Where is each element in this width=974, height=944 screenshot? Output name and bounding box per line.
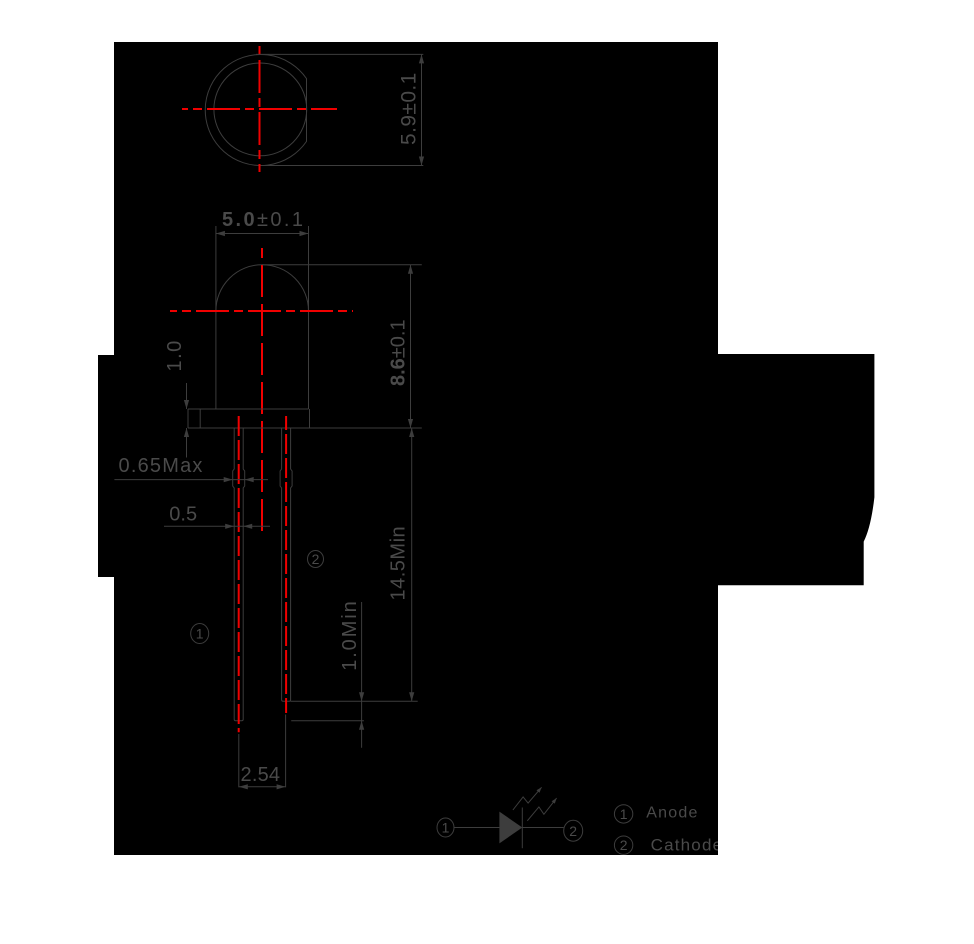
schematic diode triangle [499,812,522,844]
schematic cathode wire [522,827,563,829]
svg-text:2.54: 2.54 [241,764,281,786]
cathode lead centerline [285,416,287,713]
top view horizontal centerline [182,108,337,110]
dim 0.65 left arrow [224,477,233,482]
svg-text:Cathode: Cathode [651,836,724,855]
anode lead outline [233,428,245,721]
dim 2.54 dimension line [239,786,286,788]
dim 5.9 top arrow [419,54,424,63]
dim 1.0Min dimension line [361,602,363,748]
dim 14.5Min dimension line [411,428,413,701]
dim 0.5 left arrow [225,524,234,529]
dim 2.54 left extension line [238,734,240,787]
dim 0.5 dimension line [164,525,270,527]
side view horizontal centerline [170,310,353,312]
dim 1.0 upper arrow [184,400,189,409]
flange right edge [309,409,311,428]
svg-text:1.0Min: 1.0Min [339,599,361,670]
dim 2.54 left arrow [239,784,248,789]
svg-text:0.5: 0.5 [169,503,197,525]
svg-text:2: 2 [569,823,577,839]
anode tip level extension line [291,720,364,722]
dim 14.5Min bottom arrow [409,692,414,701]
dim 2.54 right arrow [277,784,286,789]
dim 0.65 right arrow [245,477,254,482]
dim 1.0 upper line [186,383,188,409]
flange inner vertical [199,409,201,428]
pin 1 callout [191,624,209,644]
legend pin2 circle [614,836,632,854]
svg-text:1.0: 1.0 [164,339,186,371]
schematic cathode bar [521,808,523,849]
flange top line [188,408,309,410]
dim 8.6 dimension line [410,265,412,428]
dim 8.6 top arrow [408,265,413,274]
dim 14.5Min top arrow [409,428,414,437]
light arrow 2 [527,798,556,821]
pin 2 callout [308,551,324,568]
dim 5.0 left arrow [216,231,225,236]
light arrow 1 [513,787,542,810]
schematic pin2 circle [564,820,583,841]
svg-text:2: 2 [620,837,628,853]
side view vertical centerline [261,248,263,533]
dim 5.0 dimension line [216,233,309,235]
svg-text:2: 2 [312,551,320,567]
dim 0.65 dimension line [114,479,268,481]
svg-text:Anode: Anode [646,805,698,822]
top view outer flange circle with flat [205,54,306,165]
dim 1.0 lower arrow [184,428,189,437]
body left side / extension [215,226,217,409]
dim 8.6 bottom arrow [408,419,413,428]
svg-text:1: 1 [620,806,628,822]
svg-text:5.0±0.1: 5.0±0.1 [222,209,305,231]
dim 5.0 right arrow [300,231,309,236]
top view vertical centerline [259,42,261,172]
legend pin1 circle [614,805,632,823]
top view inner circle [214,63,307,156]
cathode tip extension line [291,700,418,702]
svg-text:0.65Max: 0.65Max [119,455,204,477]
dim 8.6 top extension line [262,264,422,266]
dim 1.0Min upper arrow [359,692,364,701]
dim 1.0Min lower arrow [359,721,364,730]
schematic pin1 circle [437,818,454,837]
svg-text:14.5Min: 14.5Min [388,526,410,601]
dim 1.0 lower line [186,428,188,458]
body right side / extension [308,226,310,409]
flange left edge [187,409,189,428]
schematic anode wire [454,827,499,829]
svg-text:1: 1 [442,820,450,836]
dim 5.9 bottom extension line [262,165,423,167]
svg-text:8.6±0.1: 8.6±0.1 [388,319,410,386]
dim 0.5 right arrow [243,524,252,529]
cathode lead outline [280,428,292,701]
dim 2.54 right extension line [285,715,287,788]
epoxy dome [216,265,309,311]
flange bottom line / extension to dims [188,427,422,429]
anode lead centerline [238,416,240,732]
svg-text:5.9±0.1: 5.9±0.1 [398,72,421,145]
dim 5.9 dimension line [421,54,423,165]
dim 5.9 bottom arrow [419,157,424,166]
dim 5.9 top extension line [256,53,423,55]
svg-text:1: 1 [196,626,204,642]
black watermark blob right [718,354,874,585]
